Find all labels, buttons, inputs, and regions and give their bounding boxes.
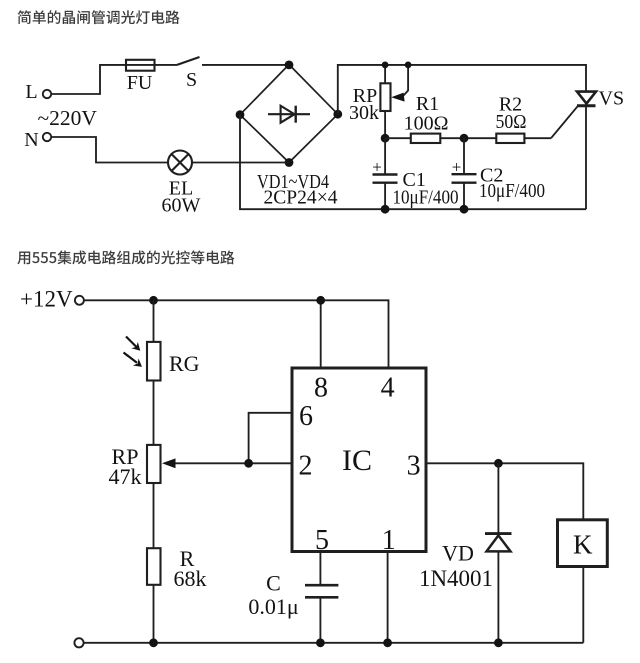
- diode VD: [485, 463, 512, 643]
- svg-text:6: 6: [299, 401, 313, 432]
- resistor R1: [411, 134, 441, 143]
- node dot RP top: [382, 62, 389, 69]
- svg-text:100Ω: 100Ω: [404, 113, 449, 135]
- thyristor VS: [577, 92, 596, 106]
- wire bridge left to bottom bus: [240, 115, 586, 210]
- svg-text:1N4001: 1N4001: [419, 566, 493, 591]
- svg-text:3: 3: [407, 451, 421, 482]
- capacitor C 0.01u: [305, 552, 338, 643]
- node dot bridge top: [285, 61, 294, 70]
- terminal bottom left: [74, 638, 83, 647]
- node dot C1 bottom: [381, 205, 390, 214]
- node dot pin2 wiper: [244, 459, 253, 468]
- terminal L: [43, 90, 51, 98]
- svg-text:L: L: [25, 81, 37, 103]
- node dot RP bottom: [381, 134, 390, 143]
- wire fuse to switch: [155, 64, 178, 66]
- RP wiper arrow from pin2: [162, 458, 249, 468]
- wire pin 8: [320, 300, 322, 368]
- switch S: [177, 57, 200, 65]
- svg-text:VD: VD: [442, 541, 474, 566]
- wire relay to bottom bus: [582, 567, 584, 643]
- terminal N: [43, 133, 51, 141]
- node dot bus VD: [494, 638, 503, 647]
- svg-text:4: 4: [381, 373, 395, 404]
- fuse FU: [126, 60, 155, 71]
- node dot bridge right: [333, 110, 342, 119]
- svg-text:2CP24×4: 2CP24×4: [264, 187, 338, 209]
- wire RG to RP: [153, 381, 155, 445]
- svg-text:+12V: +12V: [20, 287, 73, 312]
- svg-text:50Ω: 50Ω: [496, 111, 527, 133]
- node dot pin8 top: [316, 296, 325, 305]
- IC 555 box: [292, 368, 426, 552]
- wire top bus 2 and pin 4: [84, 300, 389, 368]
- svg-text:8: 8: [314, 373, 328, 404]
- wire N to lamp: [51, 137, 168, 163]
- svg-text:10μF/400: 10μF/400: [479, 180, 545, 202]
- svg-text:~220V: ~220V: [38, 106, 98, 130]
- svg-text:47k: 47k: [109, 464, 142, 489]
- svg-text:FU: FU: [127, 72, 153, 94]
- wire pin 6: [249, 413, 292, 464]
- RP wiper arrow: [391, 65, 408, 102]
- relay K: [558, 520, 608, 567]
- svg-text:68k: 68k: [174, 566, 207, 591]
- resistor R 68k: [147, 548, 161, 585]
- node dot left branch top: [149, 296, 158, 305]
- svg-text:C: C: [266, 571, 281, 596]
- wire bridge right to top bus: [338, 65, 586, 114]
- capacitor C1: [373, 138, 398, 209]
- svg-text:30k: 30k: [349, 102, 379, 124]
- title circuit 1: [18, 10, 180, 24]
- node dot bus pin1: [383, 638, 392, 647]
- svg-text:+: +: [452, 158, 462, 177]
- node dot bus C: [316, 638, 325, 647]
- wire VS cathode down: [585, 106, 587, 209]
- wire node to R1: [385, 137, 411, 139]
- potentiometer RP 47k: [147, 445, 161, 483]
- wire R2 to gate: [524, 137, 551, 139]
- svg-text:+: +: [372, 158, 382, 177]
- svg-text:N: N: [24, 129, 38, 151]
- wire R1 to R2: [440, 137, 496, 139]
- wire L to fuse: [51, 65, 126, 94]
- svg-text:2: 2: [299, 451, 313, 482]
- node dot VD top: [494, 459, 503, 468]
- wire RP to R: [153, 483, 155, 548]
- lamp EL: [168, 151, 192, 175]
- thyristor VS gate lead: [551, 106, 578, 138]
- node dot C2 top: [460, 134, 469, 143]
- wire pin 2: [249, 462, 292, 464]
- wire pin 1: [387, 552, 389, 643]
- bottom bus 2: [84, 642, 583, 644]
- svg-text:IC: IC: [342, 444, 372, 477]
- wire pin 3 to relay: [426, 463, 583, 520]
- capacitor C2: [452, 138, 477, 209]
- potentiometer RP 30k: [380, 65, 390, 138]
- bridge rectifier diamond: [240, 65, 338, 163]
- title circuit 2: [17, 250, 234, 264]
- svg-text:S: S: [186, 69, 197, 91]
- svg-text:5: 5: [315, 525, 329, 556]
- node dot bus R: [149, 638, 158, 647]
- bridge inner diode: [268, 106, 310, 123]
- node dot bridge left: [236, 110, 245, 119]
- wire R to bottom bus: [153, 585, 155, 643]
- svg-text:0.01μ: 0.01μ: [248, 594, 298, 619]
- svg-text:VS: VS: [599, 88, 625, 110]
- node dot C2 bottom: [460, 205, 469, 214]
- wire lamp to bridge: [192, 162, 289, 164]
- RG light arrows: [124, 337, 143, 367]
- wire to RG: [153, 300, 155, 342]
- node dot wiper top: [405, 62, 412, 69]
- svg-text:RG: RG: [169, 351, 200, 376]
- node dot bridge bottom: [285, 158, 294, 167]
- svg-text:60W: 60W: [162, 195, 201, 217]
- terminal +12V: [75, 296, 84, 305]
- resistor R2: [496, 134, 524, 143]
- wire switch to bridge: [202, 64, 289, 66]
- svg-text:1: 1: [382, 525, 396, 556]
- svg-text:K: K: [573, 530, 593, 560]
- photoresistor RG: [147, 342, 161, 381]
- svg-text:10μF/400: 10μF/400: [393, 187, 459, 209]
